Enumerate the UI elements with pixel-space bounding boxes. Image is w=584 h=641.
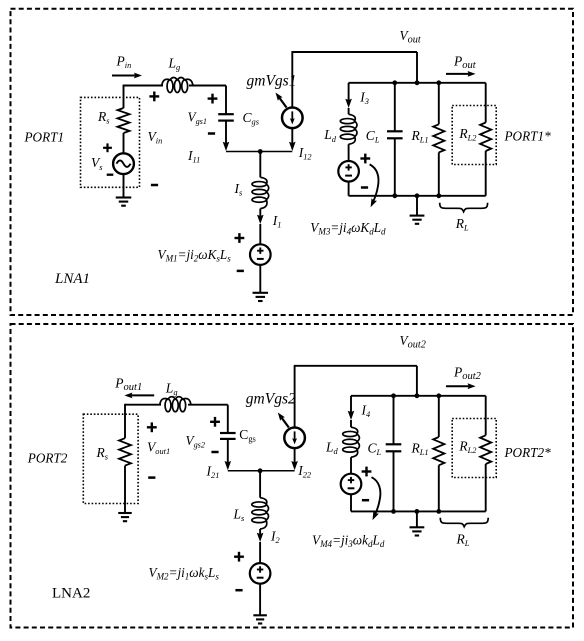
svg-text:gmVgs2: gmVgs2 bbox=[246, 391, 296, 408]
svg-text:LNA2: LNA2 bbox=[52, 586, 90, 602]
svg-text:PORT2: PORT2 bbox=[27, 451, 68, 466]
svg-text:LNA1: LNA1 bbox=[54, 271, 90, 287]
svg-text:PORT1: PORT1 bbox=[24, 130, 65, 145]
svg-text:gmVgs1: gmVgs1 bbox=[247, 73, 297, 90]
svg-text:PORT1*: PORT1* bbox=[504, 129, 552, 144]
svg-text:PORT2*: PORT2* bbox=[504, 445, 552, 460]
